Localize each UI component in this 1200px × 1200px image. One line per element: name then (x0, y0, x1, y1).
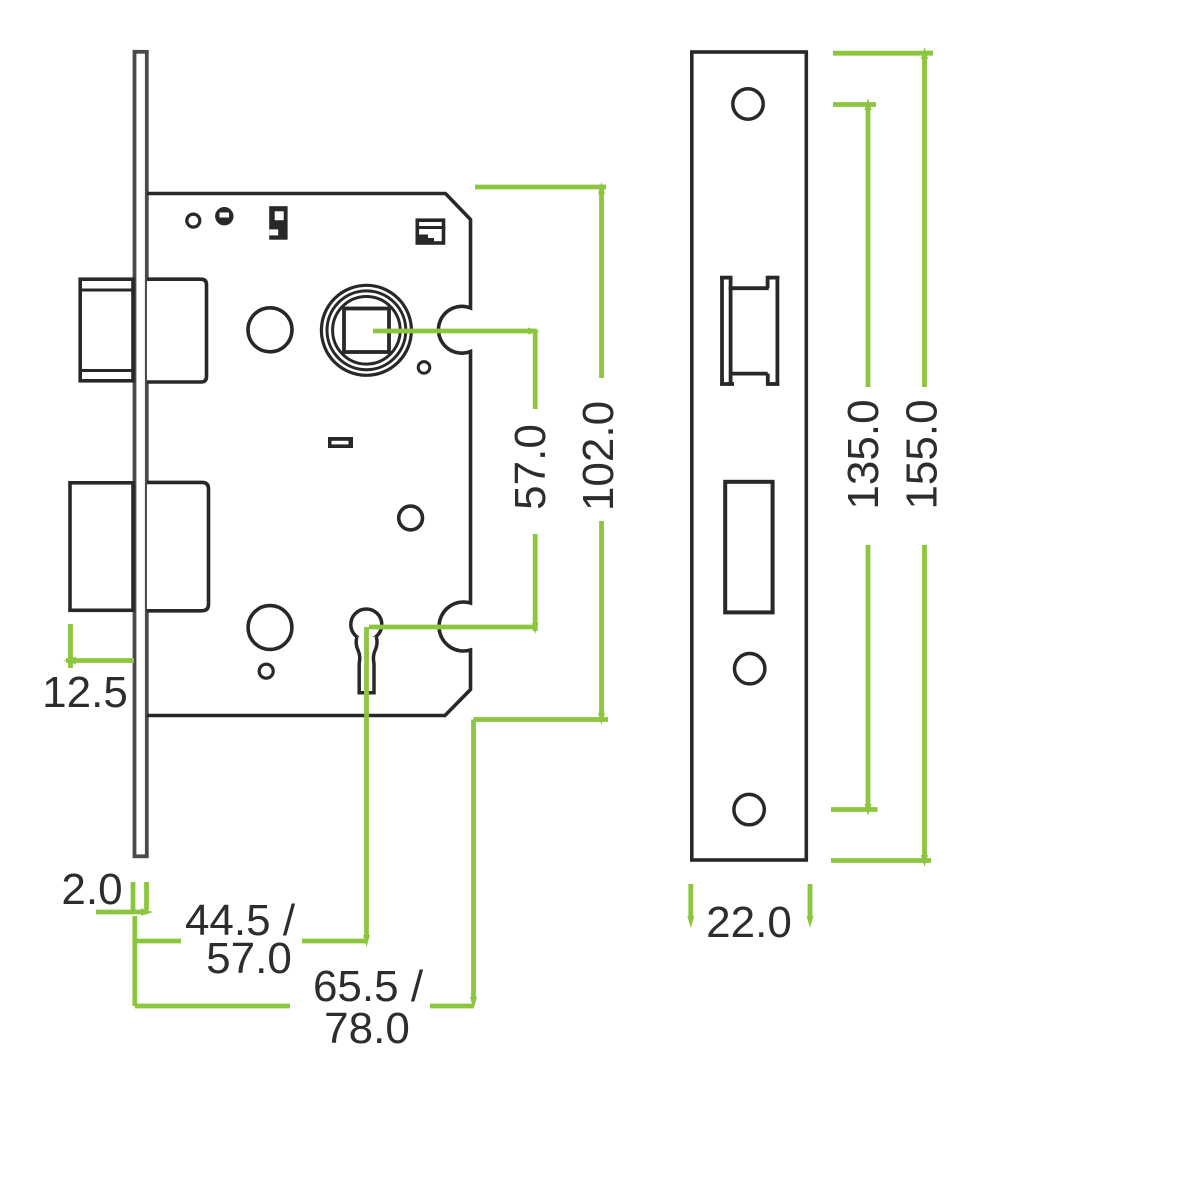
dim 12.5 extension vertical (68, 624, 73, 668)
small lever tab part (269, 206, 287, 240)
dim 44.5/57.0 + 65.5/78.0 shared left vertical (132, 916, 137, 1006)
keyhole circle (351, 609, 382, 640)
dim 155.0 top extension (833, 51, 933, 56)
dim 57.0 spindle horizontal (373, 329, 537, 334)
case bottom extension horizontal (474, 717, 609, 722)
strike latch cutout: top crossbar (729, 286, 769, 290)
spindle follower outer circle (321, 285, 411, 375)
dim 22.0 right arrow line (808, 884, 813, 918)
svg-text:12.5: 12.5 (42, 668, 128, 717)
dim 102.0 top extension horizontal (475, 185, 606, 190)
strike latch cutout: bottom right connector (766, 374, 770, 386)
dim 155.0 vertical lower segment (922, 545, 927, 861)
lock case body outline (147, 194, 471, 716)
filled rivet circle (215, 207, 233, 225)
arrow 57.0 down small (532, 623, 539, 634)
strike latch cutout: bottom crossbar (730, 372, 768, 376)
GREEN DIMENSIONS (66, 53, 933, 1006)
strike deadbolt cutout (725, 482, 772, 613)
dim 57.0 vertical upper segment (533, 331, 538, 409)
strike latch cutout: top right connector (766, 276, 770, 288)
svg-text:57.0: 57.0 (206, 934, 292, 983)
dim 57.0 vertical lower segment (533, 534, 538, 631)
strike plate bottom screw hole (734, 794, 764, 824)
middle circle (399, 506, 423, 530)
dim 155.0 vertical upper segment (922, 53, 927, 387)
circle left of follower (248, 308, 292, 352)
small screw hole top left (187, 214, 200, 227)
dim 22.0 left arrow line (688, 884, 693, 918)
latch bolt body (inside case) (147, 279, 207, 382)
svg-text:102.0: 102.0 (574, 401, 623, 511)
dim 102.0 vertical lower segment (599, 521, 604, 720)
arrow 102.0 up (598, 182, 605, 194)
arrow 65.5/78.0 corner down (470, 997, 477, 1009)
small circle below large circle (259, 664, 273, 678)
dim 44.5/57.0 line left segment (135, 939, 181, 944)
latch stop slider (top right square) (417, 220, 443, 243)
strike plate middle screw hole (735, 654, 765, 684)
faceplate (forend strip) (135, 52, 147, 857)
dim 135.0 bottom extension (831, 807, 878, 812)
deadbolt head (left of faceplate) (70, 483, 133, 611)
arrow 2.0 right (141, 908, 153, 915)
dim 65.5/78.0 line right segment (430, 1004, 474, 1009)
case bottom corner extension vertical (471, 720, 476, 1001)
green arrowheads (64, 47, 929, 1009)
dim 2.0 tick right (144, 882, 149, 910)
arrow 12.5 left (64, 657, 77, 664)
strike latch cutout: bottom bar left segment (720, 382, 734, 386)
dim 155.0 bottom extension (831, 858, 931, 863)
arrow 135.0 down (865, 804, 872, 816)
spindle follower middle circle (327, 291, 406, 370)
strike latch cutout: top bar left segment (720, 276, 732, 280)
svg-text:78.0: 78.0 (324, 1004, 410, 1053)
dim 135.0 vertical upper segment (866, 105, 871, 388)
svg-text:135.0: 135.0 (839, 399, 888, 509)
arrow 102.0 down (598, 713, 605, 725)
strike latch cutout: bottom bar right segment (766, 382, 779, 386)
dim 12.5 line (66, 658, 134, 663)
arrow 155.0 down (921, 855, 928, 867)
spindle follower inner circle (333, 297, 401, 365)
arrow 57.0 right (528, 328, 540, 335)
strike latch cutout: left inner line (729, 276, 733, 386)
arrow 135.0 up (865, 98, 872, 110)
strike latch cutout: right outer edge (776, 276, 780, 386)
keyhole centre extension vertical (364, 627, 369, 936)
deadbolt body (inside case) (147, 482, 209, 610)
arrow keyhole extension down (363, 935, 370, 947)
strike plate top screw hole (733, 89, 763, 119)
strike plate outline (692, 52, 807, 860)
dim 135.0 top extension (833, 102, 876, 107)
dimension labels (42, 399, 946, 1053)
arrow 22.0 right down (807, 916, 814, 928)
dim 135.0 vertical lower segment (866, 545, 871, 810)
latch bolt head chamfer line bottom (80, 369, 133, 372)
svg-text:22.0: 22.0 (706, 898, 792, 947)
keyhole stem (356, 637, 377, 693)
svg-text:57.0: 57.0 (506, 424, 555, 510)
svg-text:155.0: 155.0 (898, 399, 947, 509)
dim 65.5/78.0 line left segment (135, 1004, 290, 1009)
spindle square hole (344, 309, 389, 353)
keyhole centre horizontal (369, 625, 537, 630)
latch bolt head (left of faceplate) (80, 279, 133, 381)
dim 2.0 tick left (131, 882, 136, 910)
strike latch cutout: top bar right segment (766, 276, 779, 280)
dim 44.5/57.0 line right segment (302, 939, 367, 944)
arrow 22.0 left down (687, 916, 694, 928)
strike latch cutout: left outer edge (720, 276, 724, 386)
small slot with slit (328, 437, 353, 448)
svg-text:2.0: 2.0 (61, 865, 122, 914)
dim 102.0 vertical upper segment (599, 187, 604, 378)
large circle bottom left (248, 606, 292, 650)
latch bolt head chamfer line top (80, 289, 133, 292)
dim 2.0 line (96, 910, 148, 915)
small circle right below follower (418, 362, 430, 374)
arrow 155.0 up (921, 47, 928, 59)
